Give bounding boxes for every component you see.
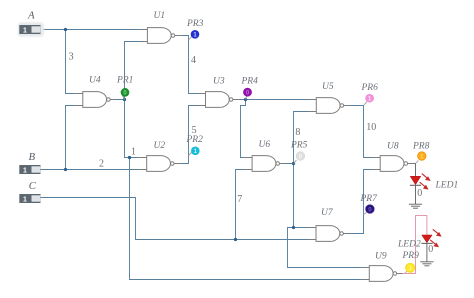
svg-text:10: 10	[366, 122, 376, 133]
LED2	[397, 229, 442, 255]
svg-text:4: 4	[191, 55, 196, 66]
wire net 8 down to U7	[294, 164, 309, 228]
svg-text:U8: U8	[387, 141, 399, 151]
svg-text:A: A	[27, 10, 35, 22]
junction node net1 at U4 output	[123, 98, 126, 101]
wire net 8 branch to U9	[288, 228, 362, 268]
svg-text:U1: U1	[154, 11, 166, 21]
probe PR7	[360, 194, 379, 215]
wire U7 output up to U8 (PR7 net)	[349, 170, 372, 234]
gate U4	[75, 92, 116, 108]
junction node net1 at U2 input	[128, 156, 131, 159]
wire U3 output to U5 (PR4 net)	[239, 99, 309, 101]
svg-text:U3: U3	[213, 77, 225, 87]
svg-text:U5: U5	[322, 82, 334, 92]
wire net B vertical to U4	[66, 106, 76, 170]
wire U8 output to LED1 (gray)	[414, 164, 416, 177]
svg-text:0: 0	[417, 188, 422, 199]
svg-text:PR6: PR6	[361, 83, 379, 93]
switch B	[19, 165, 40, 174]
svg-text:U2: U2	[154, 141, 166, 151]
wire net C branch up to U6 (net 7)	[236, 170, 245, 240]
svg-text:5: 5	[192, 125, 197, 136]
svg-text:U7: U7	[321, 208, 334, 218]
wire net 5 U2 output to U3	[180, 106, 198, 164]
wire net 1 down to U2 input	[125, 100, 140, 158]
junction node net8 at U7 input	[292, 226, 295, 229]
svg-text:PR5: PR5	[290, 141, 308, 151]
svg-text:B: B	[29, 151, 36, 163]
probe PR1	[116, 75, 133, 99]
svg-text:PR3: PR3	[186, 19, 204, 29]
wire net 10 U5 output to U8	[350, 106, 373, 158]
svg-text:1: 1	[23, 27, 27, 34]
svg-text:LED2: LED2	[397, 239, 421, 249]
switch A	[18, 22, 44, 37]
svg-text:2: 2	[99, 159, 104, 170]
wire net 1 from U4 output to U1 input	[116, 42, 140, 100]
probe PR8	[412, 141, 430, 163]
junction node B	[64, 168, 67, 171]
probe PR3	[186, 19, 204, 40]
svg-text:U9: U9	[375, 252, 387, 262]
wire net 8 U6 output up to U5	[286, 112, 309, 164]
probe PR9	[402, 251, 420, 273]
gate U3	[198, 92, 239, 108]
svg-text:8: 8	[295, 127, 300, 138]
gate U2	[139, 156, 180, 172]
ground for LED2	[420, 262, 433, 266]
wire net C horizontal from switch	[41, 198, 309, 240]
probe PR2	[186, 135, 204, 156]
junction node A	[64, 28, 67, 31]
gate U8	[373, 156, 414, 172]
gate U1	[140, 28, 181, 44]
svg-text:U4: U4	[89, 75, 101, 85]
svg-text:LED1: LED1	[435, 181, 459, 191]
wire net A vertical to U4 (net 3)	[66, 30, 76, 94]
wire net B horizontal (net 2)	[41, 169, 140, 171]
svg-text:PR1: PR1	[116, 75, 133, 85]
wire U9 output to LED2 (pink net)	[403, 216, 427, 274]
svg-text:1: 1	[131, 147, 136, 158]
svg-text:1: 1	[23, 167, 27, 174]
ground for LED1	[409, 204, 422, 208]
svg-text:C: C	[29, 180, 37, 192]
junction node U3 output	[244, 98, 247, 101]
junction node U6 output	[292, 162, 295, 165]
wire U3 output branch down to U6	[241, 100, 246, 158]
gate U7	[309, 226, 350, 242]
gate U5	[309, 98, 350, 114]
svg-text:PR4: PR4	[241, 77, 259, 87]
probe PR6	[361, 83, 379, 105]
switch C	[19, 194, 40, 203]
wire net 4 U1 output to U3	[181, 36, 198, 94]
svg-text:7: 7	[237, 194, 242, 205]
wire LED1 to ground	[415, 185, 417, 204]
svg-text:PR9: PR9	[402, 251, 420, 261]
svg-text:1: 1	[23, 196, 27, 203]
wire net 1 long branch to U9 input	[130, 158, 362, 280]
svg-text:PR8: PR8	[412, 141, 430, 151]
svg-text:3: 3	[69, 52, 74, 63]
svg-text:0: 0	[428, 244, 433, 255]
gate U6	[245, 156, 286, 172]
LED1	[410, 174, 458, 199]
svg-text:U6: U6	[259, 140, 271, 150]
wire net A horizontal	[41, 30, 373, 280]
svg-text:PR2: PR2	[186, 135, 204, 145]
probe PR5	[290, 141, 308, 164]
wire LED2 to ground	[426, 243, 428, 261]
probe PR4	[241, 77, 259, 100]
svg-text:PR7: PR7	[360, 194, 379, 204]
junction node C at U6 branch	[234, 238, 237, 241]
gate U9	[362, 266, 403, 282]
